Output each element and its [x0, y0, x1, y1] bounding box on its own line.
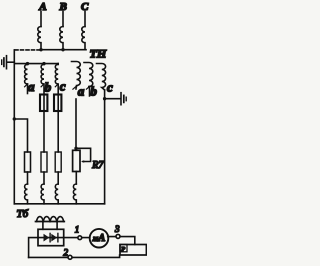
wire secondary bus	[14, 63, 58, 65]
wire rectifier left loop	[29, 238, 38, 258]
fuse FU2	[54, 95, 61, 112]
wire left vertical riser	[13, 50, 15, 204]
svg-text:а: а	[78, 84, 85, 99]
Tb winding b	[41, 184, 44, 204]
wire column c	[57, 111, 59, 152]
wire meter to relay	[108, 237, 135, 245]
Tb winding c	[55, 184, 58, 204]
meter mA	[90, 229, 109, 248]
fuse FU1	[40, 95, 47, 112]
junction dot b-bus	[42, 62, 45, 65]
svg-text:ТН: ТН	[90, 47, 107, 61]
relay box P	[120, 245, 146, 256]
svg-text:b: b	[45, 79, 52, 94]
Tb winding a	[25, 184, 28, 204]
secondary winding a	[25, 64, 28, 84]
wire primary neutral bus	[41, 49, 86, 51]
wire coil end right	[56, 222, 58, 230]
svg-text:мА: мА	[92, 233, 106, 244]
open-delta winding c	[97, 64, 106, 91]
svg-text:А: А	[38, 1, 46, 13]
svg-text:Тб: Тб	[17, 208, 29, 220]
svg-text:3: 3	[114, 224, 120, 234]
wire through rectifier	[38, 237, 64, 239]
wire a resistor to Tb	[27, 172, 29, 184]
secondary winding b	[41, 64, 44, 95]
Tb winding d	[73, 184, 76, 204]
junction dot a-bus	[26, 62, 29, 65]
wire phase B	[62, 12, 64, 27]
junction dot delta-ground	[103, 97, 106, 100]
diode VD2	[51, 234, 57, 242]
arrow terminal b2	[88, 87, 91, 97]
arrow terminal c	[55, 84, 58, 87]
svg-text:2: 2	[64, 248, 69, 258]
terminal 3	[116, 234, 120, 238]
wire b resistor to Tb	[43, 172, 45, 184]
junction dot B-neutral	[61, 48, 64, 51]
resistor R3	[55, 152, 61, 172]
wire c resistor to Tb	[57, 172, 59, 184]
wire R7 tap	[76, 148, 91, 161]
svg-text:1: 1	[75, 225, 80, 235]
primary winding C	[82, 27, 85, 50]
resistor R1	[25, 152, 31, 172]
wire delta a down	[75, 99, 77, 150]
open-delta winding a	[72, 62, 81, 86]
svg-text:а: а	[28, 79, 35, 94]
svg-text:R7: R7	[91, 160, 104, 171]
svg-text:Р: Р	[120, 246, 125, 253]
svg-text:b: b	[90, 84, 97, 99]
arrow terminal a	[27, 84, 29, 94]
wire delta end down	[104, 90, 106, 204]
terminal 1	[78, 236, 82, 240]
dashed wire neutral to ground	[15, 49, 40, 51]
resistor R7	[73, 150, 80, 171]
wire phase C	[84, 12, 86, 27]
rectifier box	[38, 229, 64, 245]
Tb secondary winding	[36, 221, 65, 223]
arrow terminal a2	[75, 87, 78, 90]
wire coil end left	[42, 222, 44, 230]
terminal 2	[68, 255, 72, 259]
wire to right ground	[105, 98, 121, 100]
relay inner square	[120, 245, 127, 252]
wire phase A	[40, 12, 42, 27]
wire bottom row	[29, 255, 120, 257]
wire column b	[43, 111, 45, 152]
wire R7 to Tb primary	[75, 172, 77, 185]
primary winding B	[60, 27, 63, 50]
ground right	[121, 93, 126, 105]
junction dot riser-branch	[13, 117, 16, 120]
junction dot R7 tap	[74, 147, 77, 150]
secondary winding c	[55, 64, 58, 95]
ground left	[2, 56, 15, 69]
resistor R2	[41, 152, 47, 172]
arrow R7 tap	[81, 160, 84, 162]
junction dot A-neutral	[39, 48, 42, 51]
wire branch to column a	[14, 119, 27, 152]
open-delta winding b	[84, 63, 93, 87]
diode VD1	[44, 234, 50, 242]
svg-text:с: с	[107, 80, 113, 95]
svg-text:с: с	[60, 79, 66, 94]
wire bottom bus	[14, 203, 104, 205]
primary winding A	[38, 27, 41, 50]
arrow terminal b	[41, 84, 44, 87]
wire rectifier to meter	[64, 237, 90, 239]
